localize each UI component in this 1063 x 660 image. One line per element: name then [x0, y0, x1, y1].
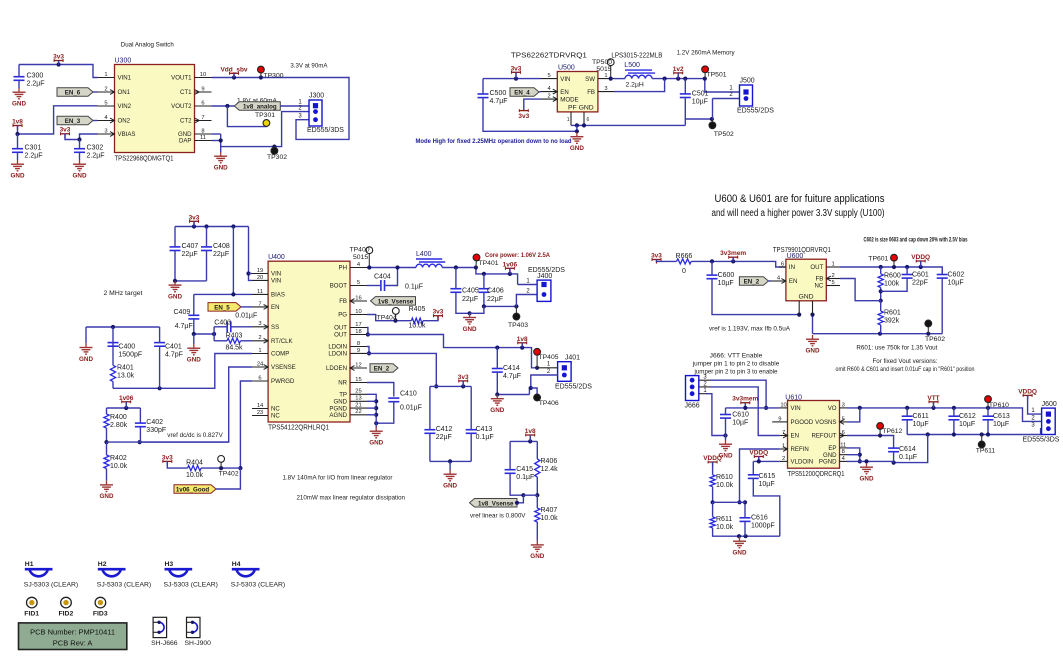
- wire R405 to 3v3: [423, 316, 438, 321]
- svg-text:U400: U400: [268, 254, 285, 261]
- power flag 1v8 (out): [517, 336, 528, 347]
- svg-text:C413: C413: [476, 426, 493, 433]
- pin 7 EN (U610): [780, 430, 799, 440]
- svg-text:20: 20: [257, 275, 263, 281]
- svg-text:7: 7: [201, 115, 204, 121]
- wire R666 to U600 IN: [691, 259, 786, 267]
- wire U300 GND DAP: [212, 133, 221, 135]
- mounting hole H1: [24, 561, 78, 589]
- svg-text:C401: C401: [165, 344, 182, 351]
- svg-text:4.7µF: 4.7µF: [503, 373, 521, 380]
- wire vtt bottom rail: [907, 429, 1041, 437]
- svg-text:2.2µH: 2.2µH: [626, 82, 644, 89]
- svg-text:OUT: OUT: [334, 325, 347, 332]
- svg-text:RT/CLK: RT/CLK: [271, 338, 293, 345]
- pin numbers J401: [547, 361, 551, 375]
- wire 1v8 to VIN2: [15, 106, 97, 136]
- wire C611 bottom: [906, 420, 908, 435]
- wire EN_2 U600 link: [768, 280, 771, 282]
- wire C601 top: [906, 267, 908, 275]
- wire VOUT1 3.3V rail: [212, 75, 350, 139]
- wire C610 top: [725, 408, 727, 415]
- wire J400 pin1: [518, 284, 538, 286]
- ground C407 C408: [168, 281, 182, 301]
- wire C616 bottom: [744, 521, 746, 536]
- svg-text:10µF: 10µF: [732, 420, 748, 427]
- pin 8 LDOIN: [328, 341, 367, 351]
- label TPS62262TDRVRQ1: [511, 53, 587, 60]
- svg-text:2: 2: [258, 335, 261, 341]
- svg-text:1: 1: [258, 348, 261, 354]
- svg-text:VOUT1: VOUT1: [171, 75, 192, 82]
- wire C414 bottom: [495, 372, 529, 397]
- pin 10 PG: [338, 309, 367, 319]
- svg-text:MODE: MODE: [560, 96, 578, 103]
- svg-text:H3: H3: [165, 561, 174, 568]
- capacitor C602 10uF: [937, 272, 965, 287]
- lead J401 pin1: [537, 367, 558, 369]
- resistor R401 13.0k: [110, 365, 134, 382]
- svg-text:22µF: 22µF: [182, 251, 198, 258]
- label J401: [565, 354, 580, 361]
- svg-text:8: 8: [357, 341, 360, 347]
- svg-text:C414: C414: [503, 365, 520, 372]
- test point TP610: [985, 396, 1010, 409]
- wire 3v3 ldoin stub: [462, 381, 464, 387]
- ground C409: [187, 344, 201, 364]
- wire C613 bottom: [987, 420, 989, 435]
- wire BIAS wire: [194, 292, 252, 296]
- ground U300: [214, 152, 228, 172]
- svg-text:VO: VO: [828, 405, 837, 412]
- svg-text:9: 9: [201, 86, 204, 92]
- svg-text:VOUT2: VOUT2: [171, 103, 192, 110]
- mounting hole H2: [97, 561, 151, 589]
- wire VDDQ VLDOIN stub: [758, 457, 760, 462]
- svg-text:4.7pF: 4.7pF: [165, 352, 183, 359]
- pin 5 VOSNS: [815, 416, 847, 426]
- wire TP406 stub: [531, 388, 537, 394]
- pin numbers J600: [1031, 408, 1035, 429]
- capacitor C402 330pF: [135, 419, 166, 434]
- fiducial FID3: [93, 597, 108, 617]
- test point TP602: [925, 320, 945, 343]
- svg-text:3: 3: [104, 128, 107, 134]
- svg-text:10: 10: [200, 72, 206, 78]
- svg-text:0.1µF: 0.1µF: [405, 284, 423, 291]
- wire BIAS riser: [232, 227, 234, 295]
- svg-text:VIN: VIN: [271, 278, 281, 285]
- svg-text:C407: C407: [182, 243, 199, 250]
- label U600: [787, 253, 804, 260]
- svg-text:10: 10: [355, 309, 361, 315]
- svg-text:5015: 5015: [596, 66, 611, 73]
- power flag VDDQ (J600): [1018, 388, 1037, 399]
- svg-text:8: 8: [201, 128, 204, 134]
- svg-text:LDOEN: LDOEN: [326, 365, 347, 372]
- fiducial FID1: [24, 597, 39, 617]
- power flag 3v3 (MODE) inverted: [518, 109, 529, 120]
- power flag 1v2: [673, 66, 684, 77]
- svg-text:13.0k: 13.0k: [117, 373, 135, 380]
- note J666 vtt3: [694, 369, 778, 376]
- svg-text:TP: TP: [339, 392, 347, 399]
- svg-text:EN: EN: [560, 89, 568, 96]
- svg-text:13: 13: [355, 396, 361, 402]
- svg-text:J666: VTT Enable: J666: VTT Enable: [710, 353, 763, 360]
- svg-text:GND: GND: [11, 173, 25, 180]
- pin 4 ON2: [98, 115, 131, 125]
- svg-text:3v3: 3v3: [651, 253, 662, 260]
- pin 3 FB (U500): [587, 86, 614, 96]
- svg-text:U600 & U601 are for fuiture ap: U600 & U601 are for fuiture applications: [715, 193, 885, 205]
- svg-text:22µF: 22µF: [213, 251, 229, 258]
- svg-text:12: 12: [355, 362, 361, 368]
- svg-text:23: 23: [257, 410, 263, 416]
- svg-text:25: 25: [355, 389, 361, 395]
- power flag 3v3 (U600): [651, 253, 662, 264]
- capacitor C614 0.1uF: [888, 446, 917, 461]
- IC U500 body: [557, 72, 598, 112]
- svg-text:10µF: 10µF: [692, 99, 708, 106]
- svg-text:ED555/2DS: ED555/2DS: [528, 267, 565, 274]
- pin 23 NC: [252, 410, 280, 420]
- svg-text:R610: R610: [716, 474, 733, 481]
- svg-text:R611: R611: [716, 516, 732, 523]
- label 2 MHz target: [104, 290, 143, 297]
- svg-text:2: 2: [548, 94, 551, 100]
- wire C412 bottom: [429, 433, 431, 461]
- pin 21 PGND: [329, 403, 367, 413]
- svg-text:10µF: 10µF: [913, 421, 929, 428]
- wire gnd stub C412: [449, 461, 451, 470]
- capacitor C409 4.7uF: [188, 315, 199, 319]
- label C410: [400, 391, 417, 398]
- capacitor C404 0.1uF: [374, 274, 423, 292]
- jumper shunt SH-J900: [185, 617, 212, 647]
- wire VIN19 link: [249, 273, 253, 275]
- wire C613 top: [987, 408, 989, 416]
- svg-text:3v3: 3v3: [53, 54, 64, 61]
- svg-text:GND: GND: [73, 173, 87, 180]
- net flag EN_3: [57, 116, 93, 125]
- pin numbers J500: [729, 86, 733, 99]
- svg-text:10.0k: 10.0k: [408, 323, 426, 330]
- svg-text:3v3: 3v3: [189, 214, 200, 221]
- pin 3 VO: [828, 402, 847, 412]
- svg-text:SJ-5303 (CLEAR): SJ-5303 (CLEAR): [164, 582, 218, 589]
- pin 12 LDOEN: [326, 362, 367, 372]
- wire vsense mid rail: [523, 494, 537, 496]
- svg-text:C301: C301: [25, 145, 42, 152]
- pin 22 AGND: [329, 409, 367, 419]
- wire C500 bottom to gnd rail: [483, 98, 577, 132]
- wire U300 DAP link: [212, 140, 221, 142]
- IC U600 body: [786, 259, 826, 301]
- wire agnd link: [367, 414, 376, 416]
- IC U300 TPS22968 body: [115, 65, 195, 153]
- svg-text:C415: C415: [516, 466, 533, 473]
- wire C400 top rail: [86, 325, 160, 329]
- wire SW to L500: [609, 77, 625, 81]
- pin 3 SS: [252, 321, 279, 331]
- pin 13 GND (U400): [333, 396, 367, 406]
- svg-text:3v3mem: 3v3mem: [732, 396, 758, 403]
- wire C415 top: [509, 441, 511, 469]
- svg-text:C500: C500: [490, 90, 507, 97]
- wire R611 bottom: [713, 528, 780, 538]
- svg-text:GND: GND: [443, 483, 457, 490]
- capacitor C501 10uF: [680, 91, 709, 106]
- wire C408 bottom: [206, 251, 208, 281]
- capacitor C405 22uF: [450, 289, 461, 293]
- svg-text:10µF: 10µF: [993, 421, 1009, 428]
- capacitor C408 22uF: [201, 243, 230, 258]
- wire LDOIN wire: [369, 353, 438, 388]
- test point TP406: [534, 394, 559, 407]
- pin U600 gnd stub2: [812, 301, 814, 315]
- svg-text:TP404: TP404: [377, 315, 397, 322]
- svg-text:GND: GND: [369, 440, 383, 447]
- svg-text:C410: C410: [400, 391, 417, 398]
- wire L400 out: [442, 265, 517, 284]
- test point TP302: [267, 147, 287, 161]
- svg-text:392k: 392k: [884, 318, 900, 325]
- svg-text:J400: J400: [537, 273, 552, 280]
- pin numbers J300: [298, 100, 302, 120]
- svg-text:3v3: 3v3: [511, 65, 522, 72]
- svg-text:R600: R600: [884, 273, 901, 280]
- svg-text:C400: C400: [118, 344, 135, 351]
- pin 9 PGOOD: [772, 416, 814, 426]
- label 1.8V at 60mA: [237, 98, 278, 105]
- wire C405 top: [455, 268, 457, 289]
- pin 2 ON1: [98, 86, 131, 96]
- resistor R405 10.0k: [408, 306, 426, 329]
- resistor R611 10.0k: [710, 516, 734, 531]
- power flag 1v06: [119, 395, 134, 406]
- wire U600 bottom rail: [813, 332, 943, 336]
- svg-text:10µF: 10µF: [948, 280, 964, 287]
- wire EN_6 to ON1: [93, 91, 98, 93]
- ground C405: [463, 313, 477, 333]
- note vref dcdc: [167, 432, 223, 439]
- svg-text:GND: GND: [798, 294, 813, 301]
- wire VOUT2: [212, 104, 235, 108]
- label C405: [462, 288, 479, 295]
- svg-text:U500: U500: [558, 65, 575, 72]
- svg-text:3.3V at 90mA: 3.3V at 90mA: [290, 63, 327, 70]
- label ED555/2DS J400: [528, 267, 565, 274]
- svg-text:R406: R406: [541, 458, 558, 465]
- svg-text:NC: NC: [271, 413, 280, 420]
- test point TP300: [258, 66, 284, 79]
- svg-text:SH-J900: SH-J900: [185, 640, 212, 647]
- svg-text:PF GND: PF GND: [568, 105, 594, 112]
- wire divider mid rail: [713, 501, 740, 503]
- pin 2 RT/CLK: [252, 335, 293, 345]
- svg-text:CT1: CT1: [180, 89, 192, 96]
- resistor R407 10.0k: [535, 507, 558, 522]
- net flag EN_4: [510, 88, 539, 97]
- svg-text:GND: GND: [860, 476, 874, 483]
- wire BOOT left: [367, 285, 381, 287]
- net flag 1v8_Vsense: [371, 297, 416, 306]
- note C602 size: [864, 237, 968, 244]
- test point TP403: [508, 306, 528, 329]
- wire R400 bottom: [104, 428, 108, 444]
- svg-text:EN: EN: [789, 278, 797, 285]
- pin 5 NC (U600): [814, 280, 840, 290]
- svg-text:15: 15: [355, 377, 361, 383]
- svg-text:1v8_Vsense: 1v8_Vsense: [478, 500, 514, 507]
- wire R403 left: [214, 340, 227, 342]
- svg-text:C405: C405: [462, 288, 479, 295]
- IC U610 body: [788, 401, 840, 469]
- wire 1v8 top rail: [510, 439, 537, 443]
- wire J500 pin2: [713, 98, 740, 100]
- wire VDDQ stub U600: [920, 261, 922, 267]
- svg-text:H4: H4: [232, 561, 241, 568]
- svg-text:PGND: PGND: [819, 459, 837, 466]
- svg-text:SH-J666: SH-J666: [151, 640, 178, 647]
- net flag 1v8_Vsense out: [470, 499, 518, 508]
- ground R407: [530, 541, 544, 561]
- svg-text:5: 5: [832, 280, 835, 286]
- svg-text:TP611: TP611: [976, 448, 996, 455]
- capacitor C401 4.7pF: [154, 343, 183, 359]
- wire 3v3 stub U500: [515, 72, 517, 78]
- svg-text:C616: C616: [751, 515, 768, 522]
- svg-text:1500pF: 1500pF: [118, 352, 142, 359]
- svg-text:GND: GND: [79, 356, 93, 363]
- svg-text:0.1µF: 0.1µF: [476, 434, 494, 441]
- resistor R406 12.4k: [535, 458, 558, 477]
- svg-text:C614: C614: [899, 446, 916, 453]
- power flag 3v3 (R404): [162, 454, 173, 465]
- pin 8 GND: [178, 128, 212, 138]
- svg-text:NC: NC: [271, 406, 280, 413]
- svg-text:NR: NR: [338, 380, 347, 387]
- svg-text:FID3: FID3: [93, 611, 108, 618]
- svg-text:18: 18: [355, 329, 361, 335]
- svg-text:LPS3015-222MLB: LPS3015-222MLB: [611, 53, 662, 60]
- wire C406 bottom: [482, 292, 519, 308]
- svg-text:2 MHz target: 2 MHz target: [104, 290, 143, 297]
- svg-text:EN_6: EN_6: [65, 90, 81, 97]
- wire BIAS to C409: [193, 294, 195, 315]
- svg-text:3v3mem: 3v3mem: [720, 250, 746, 257]
- wire tp400 dot: [367, 265, 371, 269]
- svg-text:VSENSE: VSENSE: [271, 364, 296, 371]
- capacitor C410 0.01uF: [388, 398, 399, 402]
- wire EP net: [847, 448, 862, 464]
- wire BOOT right: [385, 265, 400, 285]
- note 210mW: [297, 495, 406, 502]
- svg-text:22µF: 22µF: [487, 296, 503, 303]
- wire 3v3mem U610 stub: [744, 403, 746, 408]
- capacitor C403 0.01uF: [214, 313, 257, 333]
- svg-text:EN: EN: [791, 433, 799, 440]
- capacitor C302 2.2uF: [74, 145, 105, 160]
- note mode high: [416, 138, 572, 145]
- pin 1 REFIN: [780, 443, 809, 453]
- svg-text:PG: PG: [338, 312, 347, 319]
- pin 2 FB (U600): [816, 273, 840, 283]
- svg-text:Vdd_sbv: Vdd_sbv: [220, 66, 247, 73]
- svg-text:10.0k: 10.0k: [186, 472, 204, 479]
- svg-text:C610: C610: [732, 412, 749, 419]
- label 3.3V at 90mA: [290, 63, 327, 70]
- resistor R610 10.0k: [710, 474, 734, 489]
- wire VO net: [847, 406, 1042, 422]
- jumper shunt SH-J666: [151, 617, 178, 647]
- svg-text:jumper pin 1 to pin 2 to disab: jumper pin 1 to pin 2 to disable: [692, 361, 780, 368]
- pin 6 PWRGD: [252, 375, 295, 385]
- svg-text:3: 3: [258, 321, 261, 327]
- pin 6 REFOUT: [811, 430, 847, 440]
- fiducial FID2: [59, 597, 74, 617]
- svg-text:GND: GND: [806, 348, 820, 355]
- pin 9 LDOIN: [328, 348, 367, 358]
- svg-text:6: 6: [201, 100, 204, 106]
- capacitor C613 10uF: [983, 413, 1010, 428]
- pin 5 VIN2: [98, 100, 132, 110]
- pin 14 NC: [252, 403, 280, 413]
- svg-text:2: 2: [104, 86, 107, 92]
- svg-text:VDDQ: VDDQ: [911, 254, 930, 261]
- capacitor C611 10uF: [902, 413, 929, 428]
- ground U500: [570, 133, 584, 153]
- svg-text:1v06: 1v06: [119, 395, 134, 402]
- power flag Vdd_sbv: [220, 66, 247, 77]
- power flag 3v3 (LDOIN): [458, 374, 469, 385]
- svg-text:TP300: TP300: [264, 73, 284, 80]
- svg-text:9: 9: [778, 416, 781, 422]
- power flag 1v8 (U300 VIN2): [12, 119, 23, 130]
- pin 4 EN (U500): [541, 86, 569, 96]
- svg-text:22: 22: [355, 409, 361, 415]
- wire 3v3 to VIN1: [19, 62, 98, 77]
- svg-text:FID1: FID1: [24, 611, 39, 618]
- svg-text:5: 5: [842, 416, 845, 422]
- pin 1 SW (U500): [585, 73, 614, 83]
- svg-text:ED555/3DS: ED555/3DS: [1023, 436, 1060, 443]
- label PF GND (U500): [568, 105, 594, 112]
- svg-text:SJ-5303 (CLEAR): SJ-5303 (CLEAR): [97, 582, 151, 589]
- wire pgnd joint: [893, 461, 895, 462]
- svg-text:0: 0: [682, 268, 686, 275]
- wire C500 top: [482, 79, 484, 94]
- wire 3v3 to R666: [657, 260, 677, 262]
- svg-text:H1: H1: [25, 561, 34, 568]
- svg-text:330pF: 330pF: [146, 427, 166, 434]
- svg-text:VIN1: VIN1: [118, 75, 132, 82]
- wire U300 gnd vertical: [219, 134, 223, 152]
- test point TP400: [350, 247, 373, 268]
- wire Vdd_sbv stub: [233, 73, 235, 77]
- note fixed vout2: [836, 366, 975, 373]
- wire C300 bottom: [18, 80, 20, 88]
- ground divider: [733, 537, 747, 557]
- svg-text:R401: R401: [117, 365, 134, 372]
- pin 6 IN (U600): [779, 261, 795, 271]
- label 0.01uF C410: [400, 405, 422, 412]
- svg-text:VDDQ: VDDQ: [1018, 388, 1037, 395]
- svg-text:1.8V 140mA for I/O from linear: 1.8V 140mA for I/O from linear regulator: [283, 475, 394, 482]
- ground U400 pins: [369, 427, 383, 447]
- wire EN_4 to EN: [539, 91, 541, 93]
